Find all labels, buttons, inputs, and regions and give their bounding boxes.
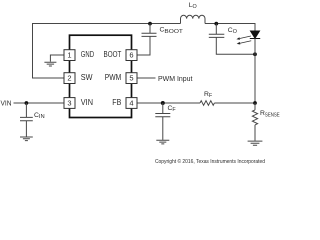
inductor LO	[181, 15, 206, 23]
svg-text:BOOT: BOOT	[104, 50, 122, 59]
label RF	[204, 91, 213, 99]
svg-text:CF: CF	[168, 105, 177, 113]
svg-text:PWM Input: PWM Input	[158, 76, 193, 83]
label LO	[189, 2, 197, 10]
node output/CO junction	[214, 22, 218, 26]
svg-text:RSENSE: RSENSE	[260, 110, 280, 118]
pin name BOOT	[104, 50, 122, 59]
svg-text:1: 1	[67, 51, 71, 60]
label RSENSE	[260, 110, 280, 118]
wire SW pin2 to top rail (node SW)	[33, 24, 181, 79]
capacitor CIN	[20, 103, 33, 137]
svg-text:VIN: VIN	[81, 98, 93, 107]
wire RF to RSENSE node	[214, 102, 255, 104]
wire PWM pin5 to PWM Input	[137, 77, 156, 79]
pin 4	[126, 98, 137, 109]
label CBOOT	[160, 27, 184, 35]
svg-text:PWM: PWM	[105, 73, 122, 82]
capacitor CO	[209, 24, 255, 55]
svg-text:2: 2	[67, 74, 71, 83]
copyright notice	[155, 158, 265, 165]
capacitor CBOOT	[137, 24, 157, 56]
node FB/CF junction	[161, 101, 165, 105]
resistor RSENSE	[252, 103, 257, 141]
pin name FB	[112, 98, 121, 107]
svg-text:5: 5	[129, 74, 133, 83]
label CIN	[34, 112, 45, 120]
resistor RF	[200, 101, 214, 106]
pin name VIN	[81, 98, 93, 107]
ground (pin 1 GND)	[44, 62, 56, 66]
svg-text:4: 4	[129, 99, 133, 108]
ground (CIN)	[20, 137, 33, 141]
pin 3	[64, 98, 75, 109]
label VIN (net)	[1, 101, 12, 108]
IC U1 body	[70, 35, 132, 117]
svg-text:3: 3	[67, 99, 71, 108]
svg-text:FB: FB	[112, 98, 121, 107]
svg-text:VIN: VIN	[1, 101, 12, 108]
svg-text:RF: RF	[204, 91, 213, 99]
ground (RSENSE)	[248, 141, 263, 145]
pin 2	[64, 73, 75, 84]
svg-text:Copyright © 2016, Texas Instru: Copyright © 2016, Texas Instruments Inco…	[155, 158, 265, 165]
pin 6	[126, 50, 137, 61]
pin name SW	[81, 73, 93, 82]
pin name PWM	[105, 73, 122, 82]
pin name GND	[81, 50, 94, 59]
pin 5	[126, 73, 137, 84]
label CO	[228, 27, 237, 35]
svg-text:CBOOT: CBOOT	[160, 27, 184, 35]
svg-text:SW: SW	[81, 73, 93, 82]
node VIN/CIN junction	[25, 101, 29, 105]
LED emission arrows	[236, 36, 251, 45]
label PWM Input	[158, 76, 193, 83]
label CF	[168, 105, 177, 113]
wire VIN source to pin3	[14, 102, 65, 104]
wire top rail output node to LED	[205, 24, 255, 32]
svg-text:GND: GND	[81, 50, 94, 59]
svg-text:6: 6	[129, 51, 133, 60]
svg-text:CO: CO	[228, 27, 237, 35]
pin 1	[64, 50, 75, 61]
wire GND pin1 to ground	[50, 55, 64, 62]
svg-text:LO: LO	[189, 2, 197, 10]
LED D1	[250, 31, 260, 104]
node LED cathode / CO junction	[253, 52, 257, 56]
capacitor CF	[155, 103, 170, 140]
wire FB pin4 to RF and CF	[137, 102, 200, 104]
node SW/CBOOT junction	[148, 22, 152, 26]
svg-text:CIN: CIN	[34, 112, 45, 120]
node RF/RSENSE/LED junction	[253, 101, 257, 105]
ground (CF)	[156, 140, 169, 144]
